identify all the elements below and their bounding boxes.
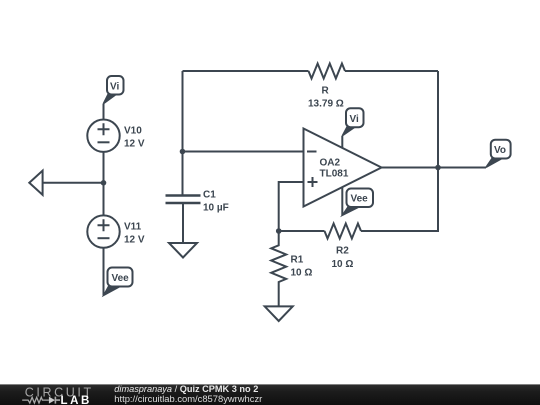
node C1/inverting-input junction [180, 149, 186, 155]
svg-text:R2: R2 [336, 246, 349, 257]
svg-text:10 µF: 10 µF [203, 203, 229, 214]
V- power stub [341, 187, 343, 215]
node left junction [101, 180, 107, 186]
capacitor C1 [166, 190, 229, 214]
wire left vertical lower [182, 152, 184, 196]
wire top-right (R to feedback corner) [345, 70, 438, 72]
svg-text:Vee: Vee [112, 273, 130, 284]
svg-text:V11: V11 [124, 222, 142, 233]
svg-text:13.79 Ω: 13.79 Ω [308, 99, 344, 110]
wire left vertical upper [182, 71, 184, 152]
node output junction [435, 165, 441, 171]
ground (below R1) [265, 306, 293, 321]
wire top-left (C1 node to R) [183, 70, 309, 72]
wire output [382, 167, 487, 169]
resistor R [308, 64, 345, 110]
svg-text:Vi: Vi [350, 114, 359, 125]
wire R2 right [361, 168, 438, 232]
svg-text:10 Ω: 10 Ω [332, 259, 354, 270]
wire to inverting input [183, 151, 304, 153]
resistor R2 [325, 224, 362, 271]
wire junction to arrow [43, 182, 104, 184]
wire R2 left [279, 230, 325, 232]
flag Vee (op-amp V-) [342, 189, 373, 216]
wire Vi flag to V10 [103, 104, 105, 120]
wire V10 to V11 [103, 152, 105, 216]
V+ power stub [341, 136, 343, 148]
wire noninverting input [279, 182, 304, 231]
svg-text:http://circuitlab.com/c8578ywr: http://circuitlab.com/c8578ywrwhczr [114, 393, 262, 404]
flag Vi (source top) [103, 76, 123, 104]
voltage source V11 [87, 215, 145, 247]
svg-text:10 Ω: 10 Ω [291, 268, 313, 279]
voltage source V10 [87, 120, 145, 152]
svg-text:12 V: 12 V [124, 139, 145, 150]
svg-text:TL081: TL081 [320, 169, 349, 180]
svg-text:Vee: Vee [351, 194, 369, 205]
ground (below C1) [169, 243, 197, 258]
svg-text:Vo: Vo [494, 145, 506, 156]
svg-text:12 V: 12 V [124, 235, 145, 246]
svg-text:R: R [322, 86, 330, 97]
footer bar [0, 384, 540, 405]
svg-text:OA2: OA2 [320, 158, 341, 169]
flag Vee (source bottom) [104, 268, 133, 296]
ground arrow (left) [29, 171, 42, 195]
svg-text:V10: V10 [124, 126, 142, 137]
CircuitLab logo wordmark [22, 385, 93, 405]
flag Vi (op-amp V+) [342, 108, 363, 136]
svg-text:R1: R1 [291, 255, 304, 266]
wire C1 to ground [182, 204, 184, 243]
svg-text:Vi: Vi [110, 82, 119, 93]
wire V11 to Vee flag [103, 248, 105, 295]
svg-text:C1: C1 [203, 190, 216, 201]
node R1/R2 junction [276, 228, 282, 234]
wire feedback vertical [437, 71, 439, 168]
flag Vo [486, 140, 511, 168]
resistor R1 [271, 231, 312, 306]
svg-text:LAB: LAB [61, 395, 92, 405]
op-amp OA2 [304, 129, 382, 207]
